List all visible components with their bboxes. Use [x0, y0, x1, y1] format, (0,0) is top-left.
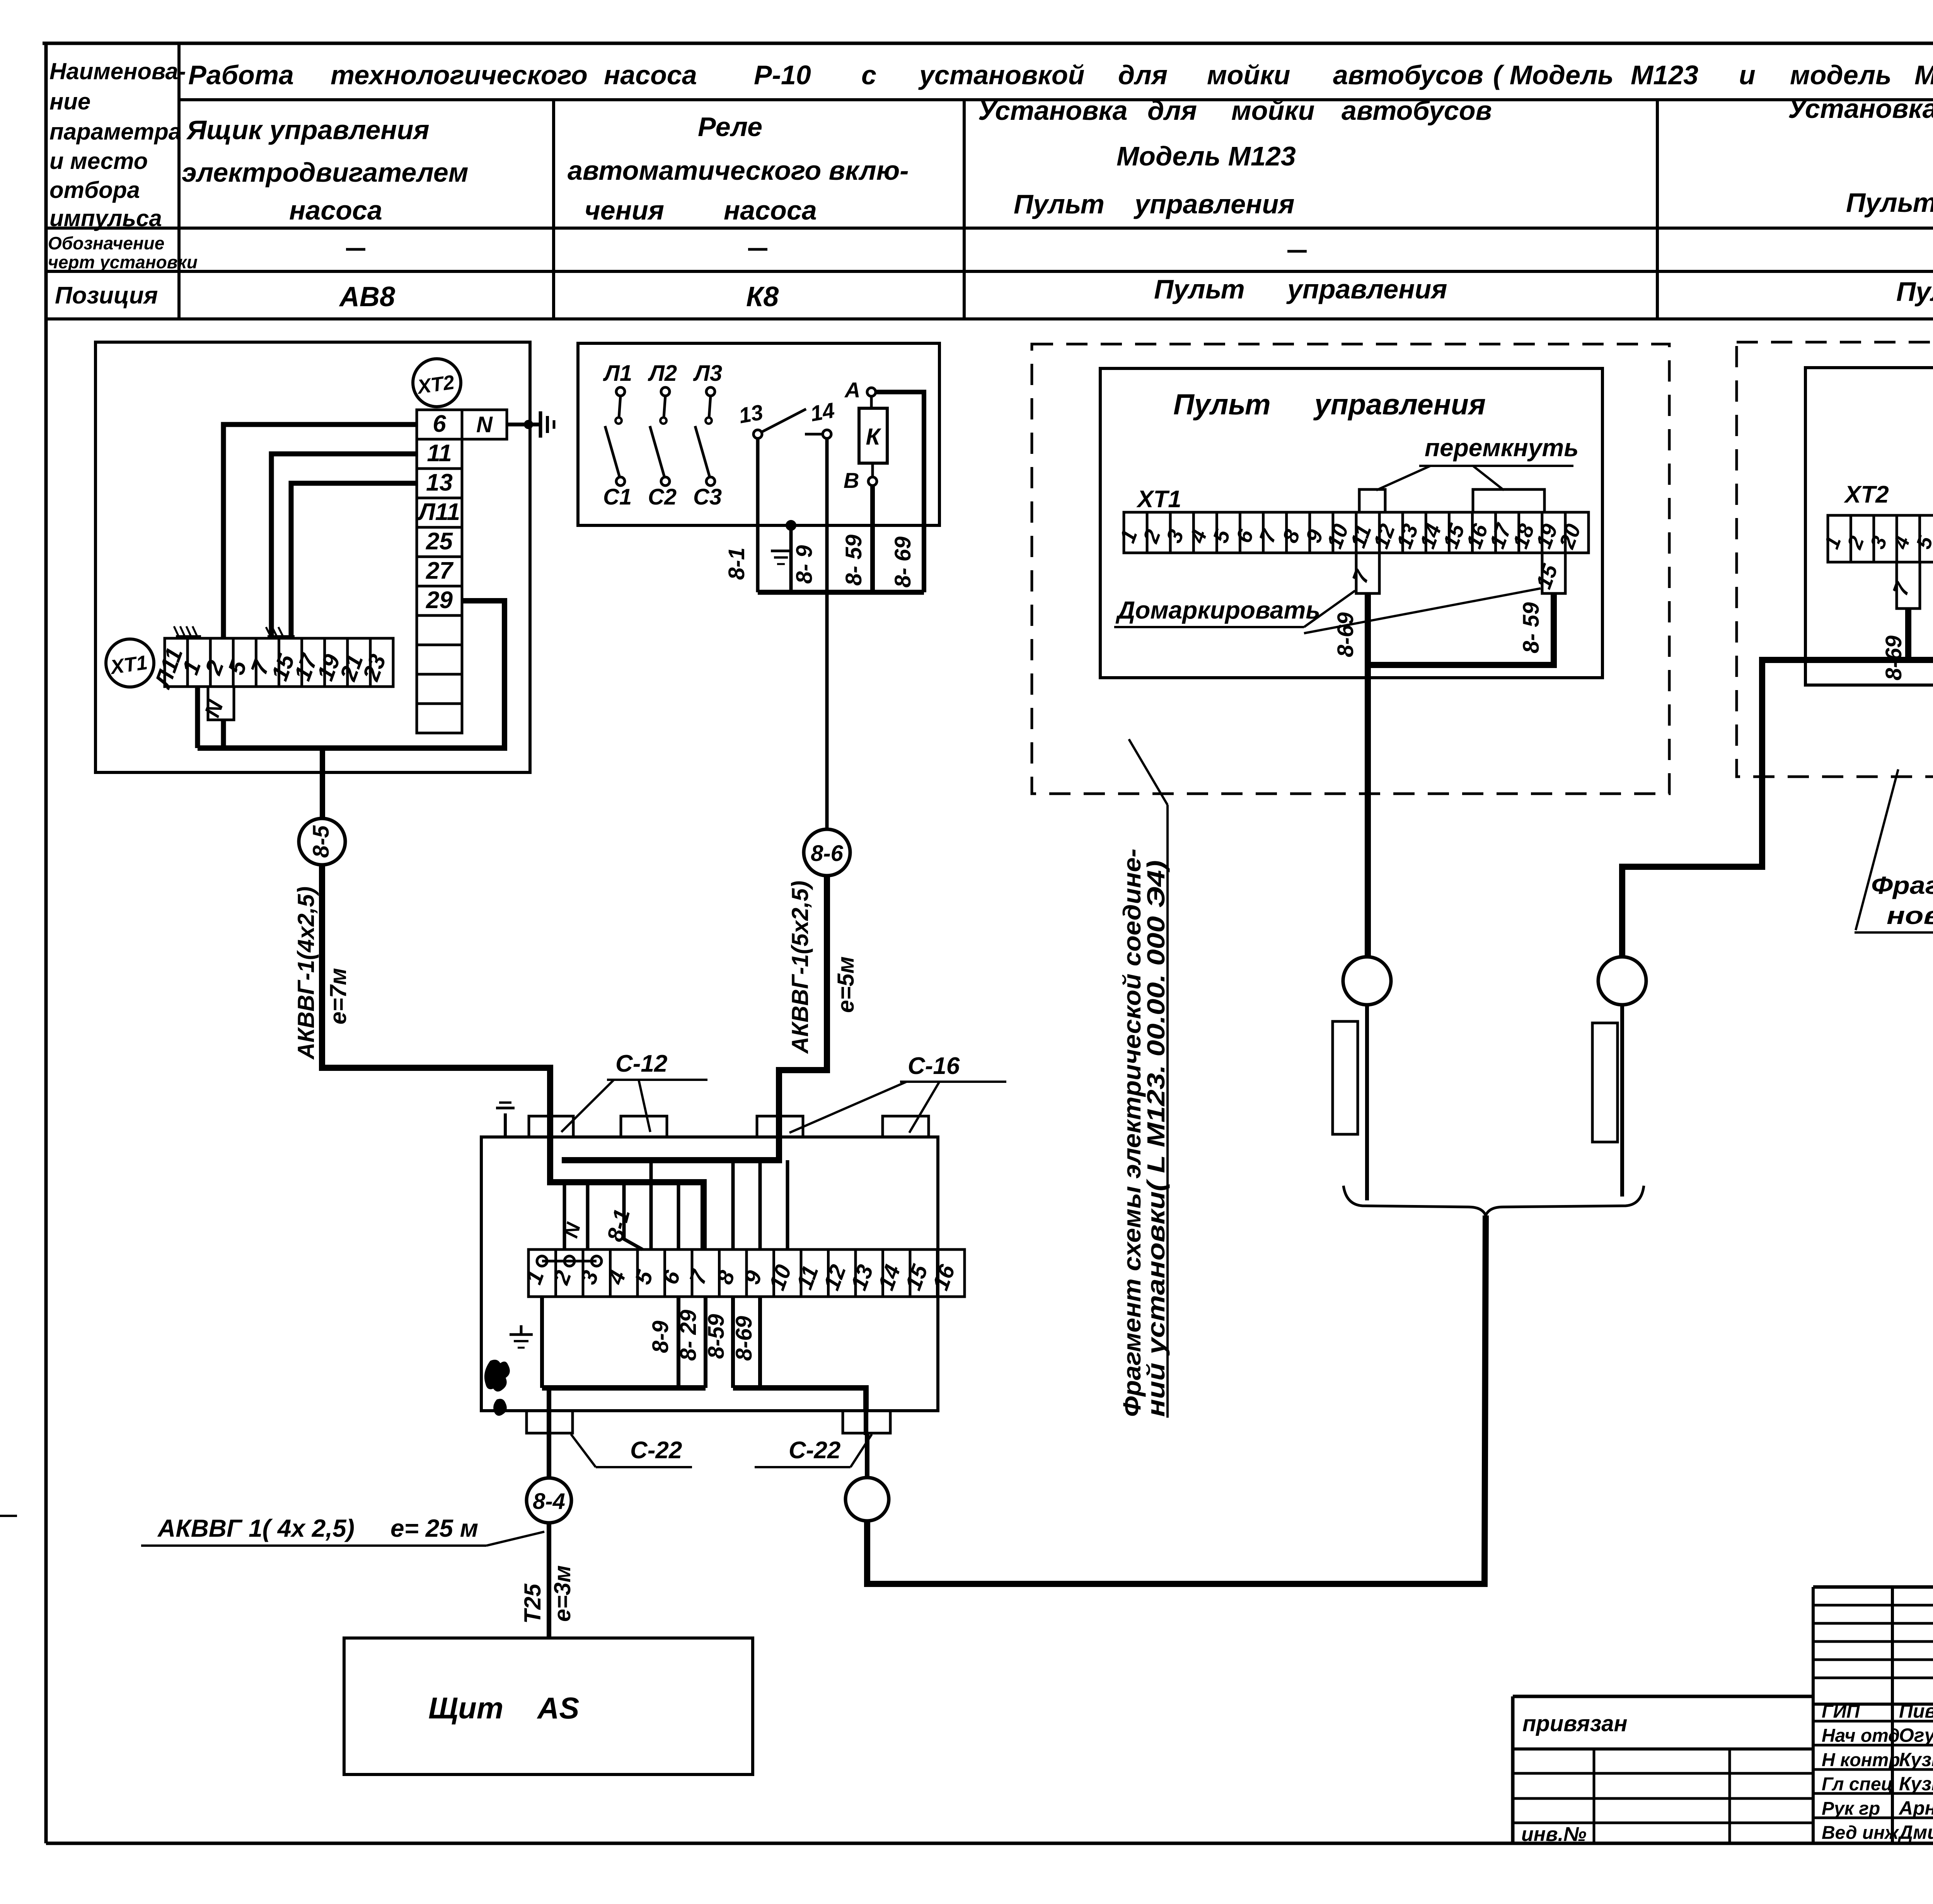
wire brace to bottom run [867, 1215, 1486, 1584]
title block left labels [1521, 1711, 1628, 1846]
svg-text:АВ8: АВ8 [339, 281, 395, 312]
wire drops from 8-6 bus to strip [651, 1160, 788, 1249]
svg-text:насоса: насоса [289, 195, 382, 225]
device circle (M128 branch) [1598, 957, 1646, 1005]
title block main grid [1513, 1696, 1933, 1843]
terminal block label circle XT1 [106, 639, 154, 687]
left bottom bus of XT8 [542, 1385, 706, 1391]
svg-text:Р-10: Р-10 [754, 60, 811, 90]
margin tick mark [0, 1515, 17, 1517]
svg-text:11: 11 [427, 440, 452, 467]
svg-text:е= 25 м: е= 25 м [390, 1514, 478, 1542]
wire console M123 tag 15 to tag 7 (8-59) [1370, 593, 1554, 665]
node B [844, 468, 877, 493]
svg-text:8- 29: 8- 29 [676, 1310, 701, 1361]
svg-text:8- 69: 8- 69 [890, 537, 915, 588]
wire below device circle M123 [1365, 1005, 1369, 1200]
svg-text:Арнаутова: Арнаутова [1898, 1797, 1933, 1819]
svg-text:ГИП: ГИП [1822, 1701, 1860, 1722]
wire 8-1 drop with slant [624, 1182, 643, 1249]
cable exit C-22 a [527, 1411, 573, 1433]
svg-text:Установка: Установка [978, 95, 1128, 126]
svg-text:С3: С3 [693, 484, 722, 510]
svg-text:ние: ние [49, 89, 90, 114]
dashed enclosure console M128 [1737, 342, 1933, 777]
jumper bracket over XT1 11-12 [1359, 489, 1385, 512]
svg-text:автобусов: автобусов [1342, 95, 1492, 126]
svg-text:Пульт: Пульт [1896, 276, 1933, 307]
wire below device circle M128 [1620, 1005, 1624, 1197]
svg-text:управления: управления [1134, 189, 1294, 219]
wire contact 14 down to cable 8-6 [825, 438, 829, 829]
svg-text:8-4: 8-4 [533, 1489, 565, 1514]
svg-text:ний установки( L М123. 00.00: ний установки( L М123. 00.00. 000 Э4) [1142, 860, 1170, 1417]
wire node B to 8-59 drop [870, 486, 875, 592]
table column 1 header text [182, 115, 469, 225]
svg-text:8- 59: 8- 59 [841, 535, 866, 586]
svg-text:чения: чения [585, 195, 664, 225]
svg-text:насоса: насоса [604, 60, 697, 90]
cable entry C-16 b [883, 1116, 929, 1137]
svg-text:13: 13 [426, 469, 453, 496]
svg-text:Фрагмент схемы электрической: Фрагмент схемы электрической соединений … [1871, 871, 1933, 899]
svg-text:8-5: 8-5 [309, 825, 334, 858]
junction box XT8 outline [481, 1137, 938, 1411]
wire XT1-N to bottom bus [221, 720, 226, 748]
svg-text:Огурцов: Огурцов [1899, 1725, 1933, 1746]
svg-text:N: N [476, 412, 493, 437]
svg-text:8-69: 8-69 [731, 1316, 757, 1361]
table column 4 header text [1788, 94, 1933, 218]
svg-text:импульса: импульса [49, 205, 162, 231]
sensor rectangle M123 branch [1333, 1021, 1358, 1134]
svg-text:Вед инж: Вед инж [1822, 1823, 1899, 1843]
svg-text:К8: К8 [746, 281, 779, 312]
sensor rectangle M128 branch [1592, 1023, 1618, 1142]
terminal strip XT2 (vertical) [417, 410, 462, 733]
panel Shchit AS box [344, 1638, 753, 1774]
wire XT2-29 to bottom bus [198, 601, 505, 748]
cable entry C-16 a [757, 1116, 803, 1137]
svg-text:Пульт: Пульт [1173, 388, 1271, 421]
svg-text:Рук гр: Рук гр [1822, 1798, 1880, 1819]
relay box K8 outline [578, 343, 939, 525]
junction dot at box edge [524, 420, 533, 429]
node A [844, 378, 876, 402]
svg-text:Установка: Установка [1788, 94, 1933, 124]
svg-text:8- 9: 8- 9 [792, 545, 817, 584]
svg-text:8-69: 8-69 [1333, 612, 1358, 657]
wire relay K to node B [870, 396, 873, 408]
wire XT2-N to ground [507, 423, 540, 426]
svg-text:Нач отд: Нач отд [1822, 1726, 1900, 1746]
svg-text:автобусов: автобусов [1333, 60, 1483, 90]
svg-text:автоматического вклю-: автоматического вклю- [568, 155, 909, 186]
wire 8-69 drop below strip [758, 1297, 762, 1388]
cable marker circle 8-6 [804, 829, 850, 876]
jumper note peremknut [1376, 434, 1578, 490]
svg-text:27: 27 [426, 557, 453, 584]
svg-text:электродвигателем: электродвигателем [182, 157, 469, 188]
wire bus to cable 8-5 [320, 748, 325, 820]
table column 2 header text [568, 112, 909, 225]
svg-text:управления: управления [1286, 274, 1447, 304]
svg-text:е=5м: е=5м [833, 956, 859, 1013]
svg-text:Пульт: Пульт [1154, 274, 1245, 304]
svg-text:Модель М123: Модель М123 [1117, 141, 1296, 171]
svg-text:и: и [1739, 60, 1756, 90]
terminal block label circle XT2 [413, 359, 461, 407]
table row header: parameter name column [48, 58, 198, 309]
cable marker circle 8-4 [527, 1478, 571, 1523]
title block signature rows text [1822, 1700, 1933, 1843]
wire left bus down to cable 8-4 [547, 1388, 551, 1479]
jumper across XT8 1-2-3 [537, 1256, 602, 1266]
wire circle to XT8 bottom entry [865, 1433, 869, 1478]
svg-text:для: для [1147, 95, 1197, 126]
svg-text:6: 6 [433, 411, 446, 437]
junction dot on K8 box bottom [786, 520, 796, 531]
svg-text:отбора: отбора [49, 177, 140, 203]
svg-text:Л1: Л1 [603, 361, 632, 386]
svg-text:управления: управления [1313, 388, 1486, 421]
wire 8-59 drop below strip [731, 1297, 735, 1388]
svg-text:В: В [844, 468, 859, 493]
wire 8-29 drop below strip [704, 1297, 707, 1388]
svg-text:Реле: Реле [698, 112, 762, 142]
svg-text:е=3м: е=3м [549, 1565, 575, 1622]
wire cable 8-5 down and right to XT8 [322, 865, 550, 1137]
svg-text:Т25: Т25 [520, 1583, 545, 1624]
svg-text:установкой: установкой [918, 60, 1084, 90]
marking note domarkirovat [1114, 588, 1541, 633]
wire XT1-1 to bottom bus [195, 687, 200, 748]
cable entry C-12 b [621, 1116, 667, 1137]
svg-text:С-22: С-22 [789, 1437, 840, 1464]
bottom tie bar of K8 drops [758, 590, 924, 595]
wire XT8-1 down to left bus [540, 1297, 544, 1388]
svg-text:С-12: С-12 [615, 1050, 667, 1077]
switch contact Л1 [603, 361, 632, 510]
svg-text:с: с [861, 60, 876, 90]
fragment note text M123 (vertical) [1118, 849, 1170, 1417]
svg-text:13: 13 [737, 400, 765, 428]
device circle (M123 branch) [1343, 957, 1391, 1005]
svg-text:АКВВГ 1( 4х 2,5): АКВВГ 1( 4х 2,5) [157, 1514, 355, 1542]
cable marker circle 8-5 [299, 818, 345, 865]
svg-text:Домаркировать: Домаркировать [1115, 596, 1320, 624]
cable exit C-22 b [843, 1411, 890, 1433]
jumper bracket over XT1 16-19 [1473, 489, 1544, 512]
svg-text:С2: С2 [648, 484, 677, 510]
wire XT2-13 to XT1 strip [291, 483, 417, 638]
ground symbol inside XT8 [510, 1325, 533, 1348]
terminal strip XT1 of console M123 [1115, 512, 1589, 553]
svg-text:параметра: параметра [49, 119, 181, 145]
svg-text:С1: С1 [603, 484, 632, 510]
svg-text:Пульт: Пульт [1014, 189, 1105, 219]
svg-text:М128): М128) [1914, 60, 1933, 90]
fragment note text M128 [1855, 769, 1933, 932]
terminal strip XT8 [521, 1249, 965, 1297]
title block upper revision rows [1813, 1587, 1933, 1843]
terminal XT2 cell N [462, 410, 507, 439]
shield hatch above XT1 left [174, 626, 201, 636]
wire drop N to XT8-2 [563, 1182, 566, 1249]
wire drop to XT8-3 [586, 1182, 590, 1249]
svg-text:Дмитриева: Дмитриева [1897, 1822, 1933, 1843]
wire cable 8-6 down to XT8 [779, 876, 827, 1137]
wire XT2-6 to XT1-2 [223, 424, 417, 638]
svg-text:Работа: Работа [188, 60, 294, 90]
console M123 inner box [1100, 368, 1602, 678]
svg-text:черт установки: черт установки [48, 252, 198, 272]
cable entry C-12 a [529, 1116, 573, 1137]
ground symbol in K8 drop area [771, 551, 791, 564]
svg-text:Л2: Л2 [648, 361, 677, 386]
relay contact 13-14 [737, 398, 836, 438]
designation row dashes [346, 249, 1933, 251]
svg-text:8-9: 8-9 [648, 1321, 673, 1353]
svg-text:АS: АS [537, 1691, 579, 1725]
svg-text:и место: и место [49, 148, 148, 174]
parameter table grid [46, 43, 1933, 319]
svg-text:АКВВГ-1(4х2,5): АКВВГ-1(4х2,5) [293, 886, 319, 1060]
svg-text:Л11: Л11 [417, 499, 460, 525]
terminal strip XT2 of console M128 [1820, 515, 1933, 562]
position row values [339, 274, 1933, 312]
cable gathering brace [1343, 1186, 1644, 1215]
svg-text:8-59: 8-59 [704, 1314, 729, 1359]
console M128 inner box [1805, 368, 1933, 685]
svg-text:для: для [1118, 60, 1168, 90]
svg-text:модель: модель [1790, 60, 1892, 90]
svg-text:С-22: С-22 [630, 1437, 682, 1464]
svg-text:мойки: мойки [1231, 95, 1315, 126]
svg-text:Щит: Щит [428, 1691, 503, 1725]
svg-text:технологического: технологического [331, 60, 588, 90]
svg-text:привязан: привязан [1522, 1711, 1628, 1736]
label C-12 with leaders [561, 1050, 707, 1132]
terminal tag cell 7 under XT2-4 [1888, 562, 1920, 609]
svg-text:мойки: мойки [1207, 60, 1290, 90]
wire console M123 tag 7 down (8-69) [1365, 593, 1371, 958]
wire bus from cable 8-6 inside XT8 [562, 1137, 779, 1160]
svg-text:Позиция: Позиция [55, 282, 158, 309]
terminal XT1 cell N below [199, 687, 234, 720]
svg-text:А: А [844, 378, 860, 402]
svg-text:14: 14 [808, 398, 836, 426]
svg-text:Кузнецов: Кузнецов [1899, 1749, 1933, 1770]
wire 8-9 drop below strip [677, 1297, 680, 1388]
svg-text:Гл спец: Гл спец [1822, 1774, 1893, 1795]
svg-text:Н контр: Н контр [1822, 1750, 1900, 1770]
shield hatch above XT1-7 [266, 627, 295, 636]
svg-text:Пивторак: Пивторак [1899, 1700, 1933, 1722]
svg-text:инв.№: инв.№ [1521, 1823, 1587, 1846]
wire right exit to circle [864, 1411, 868, 1435]
svg-text:8-6: 8-6 [811, 841, 844, 866]
wire contact 13 down [756, 438, 760, 592]
svg-text:Обозначение: Обозначение [48, 233, 164, 253]
terminal tag cell 7 under XT1-11 [1347, 553, 1379, 593]
svg-text:М123: М123 [1631, 60, 1698, 90]
svg-text:( Модель: ( Модель [1493, 60, 1614, 90]
device circle above bottom run [845, 1478, 889, 1521]
wire ground stem [789, 525, 793, 592]
svg-text:8-1: 8-1 [724, 547, 749, 580]
svg-text:25: 25 [426, 528, 453, 555]
dashed enclosure console M123 [1032, 344, 1669, 794]
label C-22 left with leader [571, 1434, 692, 1467]
svg-text:Ящик управления: Ящик управления [186, 115, 430, 145]
svg-text:Л3: Л3 [693, 361, 722, 386]
svg-text:насоса: насоса [724, 195, 817, 225]
wire console M128 tag 7 and 21 bus [1905, 609, 1911, 660]
svg-text:29: 29 [426, 587, 453, 614]
switch contact Л3 [693, 361, 722, 510]
svg-text:К: К [866, 424, 882, 450]
relay coil K [859, 408, 887, 463]
ground symbol right of AB8 box [540, 411, 554, 438]
svg-text:е=7м: е=7м [325, 968, 351, 1024]
svg-text:Пульт: Пульт [1846, 188, 1933, 218]
label C-22 right with leader [755, 1434, 872, 1467]
control box AB8 outline [95, 342, 530, 772]
wire bus from cable 8-5 inside XT8 [550, 1137, 704, 1249]
label C-16 with leaders [789, 1053, 1006, 1133]
svg-text:ХТ1: ХТ1 [1136, 486, 1181, 513]
table column 3 header text [978, 95, 1492, 219]
ground symbol on XT8 box top [496, 1103, 515, 1137]
right bottom bus of XT8 to exit [733, 1388, 866, 1411]
table title row text [188, 60, 1933, 90]
svg-text:Кузнецов: Кузнецов [1899, 1773, 1933, 1795]
ink blot scribbles [484, 1360, 510, 1416]
leader line to fragment note M123 [1129, 739, 1168, 1418]
svg-text:перемкнуть: перемкнуть [1425, 434, 1578, 462]
svg-text:новки ( L М128 00. 00. 000: новки ( L М128 00. 00. 000 Э4) [1887, 902, 1933, 929]
switch contact Л2 [648, 361, 677, 510]
svg-text:8- 59: 8- 59 [1519, 602, 1544, 653]
cable label AKVVG 1(4x2,5) e=25m [141, 1514, 544, 1546]
svg-text:Наименова-: Наименова- [49, 58, 186, 84]
wire node A to 8-69 drop [876, 392, 924, 592]
console M123 title [1173, 388, 1486, 421]
svg-text:ХТ2: ХТ2 [1844, 481, 1889, 508]
terminal tag cell 15 under XT1-19 [1531, 553, 1565, 593]
terminal strip XT1 (horizontal) [149, 638, 393, 692]
wire cable 8-4 down to panel AS [547, 1523, 551, 1638]
wire XT2-11 to XT1 strip [271, 454, 417, 638]
svg-text:АКВВГ-1(5х2,5): АКВВГ-1(5х2,5) [787, 881, 813, 1054]
svg-text:С-16: С-16 [908, 1053, 960, 1079]
